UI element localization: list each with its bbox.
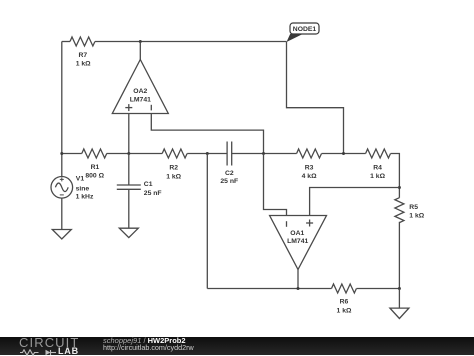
ground V1 (52, 230, 71, 239)
resistor R5 (395, 198, 425, 223)
resistor R4 (366, 149, 391, 180)
wire OA2 output stub (139, 42, 141, 61)
svg-text:R5: R5 (409, 204, 418, 211)
svg-text:R1: R1 (91, 164, 100, 171)
wire ground stub right (398, 289, 400, 309)
node junction bottom right (398, 287, 401, 290)
svg-text:LM741: LM741 (130, 96, 151, 103)
svg-text:R4: R4 (373, 165, 382, 172)
node junction R3-R4 (342, 152, 345, 155)
resistor R1 (82, 149, 107, 179)
svg-text:800 Ω: 800 Ω (85, 172, 104, 179)
resistor R3 (297, 149, 322, 180)
svg-text:C1: C1 (144, 181, 153, 188)
wire R3 to R4 (322, 153, 366, 155)
wire V1 to ground (61, 198, 63, 229)
svg-text:1 kHz: 1 kHz (76, 193, 94, 200)
wire C2 to R3 (232, 153, 297, 155)
wire bottom rail right (357, 288, 400, 290)
svg-text:R6: R6 (340, 299, 349, 306)
svg-text:4 kΩ: 4 kΩ (302, 173, 317, 180)
wire OA2 noninverting pin to main rail (128, 114, 130, 154)
svg-text:V1: V1 (76, 176, 85, 183)
svg-text:1 kΩ: 1 kΩ (76, 60, 91, 67)
svg-text:1 kΩ: 1 kΩ (166, 173, 181, 180)
op-amp OA1 (270, 216, 327, 270)
wire C1 to ground (128, 189, 130, 228)
wire NODE1 to R3-R4 junction (287, 42, 344, 154)
logo CircuitLab (19, 338, 79, 348)
node junction R5 tap (398, 186, 401, 189)
wire bottom rail left (207, 288, 331, 290)
svg-text:R7: R7 (78, 52, 87, 59)
svg-text:NODE1: NODE1 (293, 26, 317, 33)
svg-text:OA2: OA2 (133, 88, 147, 95)
svg-text:1 kΩ: 1 kΩ (409, 213, 424, 220)
ground right (390, 308, 409, 318)
svg-text:25 nF: 25 nF (144, 190, 162, 197)
wire C1 top lead (128, 154, 130, 186)
wire R1 to R2 (107, 153, 163, 155)
resistor R7 (70, 37, 95, 67)
wire R5 to bottom rail (398, 222, 400, 289)
resistor R2 (162, 149, 187, 180)
wire top rail right segment (95, 41, 287, 43)
node junction C1 (127, 152, 130, 155)
wire R4 to R5 (391, 154, 400, 198)
wire OA1 inverting to rail junction (264, 154, 287, 216)
node junction V1 top (60, 152, 63, 155)
resistor R6 (332, 284, 357, 314)
svg-text:1 kΩ: 1 kΩ (337, 307, 352, 314)
svg-text:25 nF: 25 nF (220, 178, 238, 185)
svg-text:C2: C2 (225, 170, 234, 177)
svg-text:R3: R3 (305, 165, 314, 172)
svg-text:OA1: OA1 (290, 230, 304, 237)
node junction R2-C2 (206, 152, 209, 155)
capacitor C2 (220, 142, 238, 186)
flag NODE1 (287, 23, 320, 42)
node junction C2-R3 feedback (262, 152, 265, 155)
capacitor C1 (117, 181, 162, 197)
node junction top rail OA2 output (139, 40, 142, 43)
svg-text:LM741: LM741 (287, 238, 308, 245)
wire left drop to V1 (61, 42, 63, 177)
wire OA1 output (297, 270, 299, 289)
svg-text:sine: sine (76, 186, 90, 193)
wire OA1 noninverting feedback (310, 188, 400, 216)
svg-text:R2: R2 (169, 164, 178, 171)
wire OA2 inverting feedback (151, 114, 263, 154)
voltage source V1 (51, 176, 94, 201)
wire top rail left segment (62, 41, 70, 43)
wire main rail V1 to R1 (62, 153, 82, 155)
op-amp OA2 (112, 60, 168, 114)
svg-text:1 kΩ: 1 kΩ (370, 173, 385, 180)
wire R2 to C2 (187, 153, 227, 155)
ground C1 (119, 228, 138, 237)
wire rail drop from R2-C2 junction (206, 154, 208, 289)
node junction OA1 output (297, 287, 300, 290)
footer bar (0, 337, 474, 355)
